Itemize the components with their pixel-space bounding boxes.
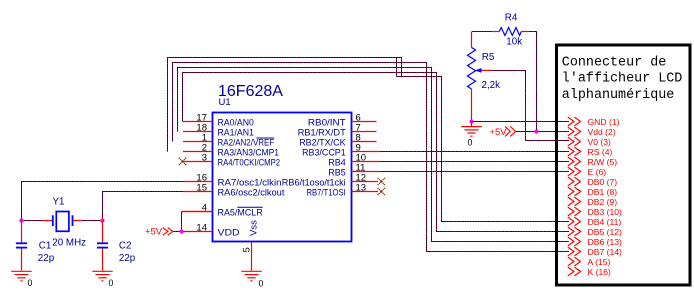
chip right pin stubs <box>352 122 381 192</box>
svg-text:20 MHz: 20 MHz <box>52 237 86 248</box>
potentiometer R5 <box>468 32 493 122</box>
label 5 <box>242 247 253 252</box>
svg-text:R4: R4 <box>505 12 518 23</box>
junction R5 bottom <box>469 119 473 123</box>
ground below chip <box>241 271 261 281</box>
svg-text:10k: 10k <box>506 37 522 48</box>
label 0 gnd R5 <box>468 138 473 148</box>
wire RA0 pin17 to DB5 <box>183 73 570 232</box>
power +5V left <box>145 226 173 237</box>
svg-text:5: 5 <box>242 247 253 252</box>
wire pin16 to crystal left <box>22 182 184 221</box>
label 0 gnd C1 <box>28 278 33 288</box>
no-connect X pin 3 <box>179 158 186 165</box>
wire R4 left to R5 top <box>472 31 492 33</box>
wire +5V left to pin14 <box>174 231 182 233</box>
svg-text:0: 0 <box>468 138 473 148</box>
label C1 22p <box>38 253 55 264</box>
svg-text:DB3 (10): DB3 (10) <box>588 207 623 217</box>
label 2,2k <box>482 80 501 91</box>
ground below R5 <box>461 122 481 137</box>
capacitor C2 <box>97 221 108 271</box>
label 10k <box>506 37 522 48</box>
wire +5V to Vdd connector <box>516 131 569 133</box>
svg-text:l'afficheur LCD: l'afficheur LCD <box>562 72 683 87</box>
svg-text:0: 0 <box>28 278 33 288</box>
power +5V right <box>490 126 516 137</box>
svg-text:RS (4): RS (4) <box>588 147 613 157</box>
label 20 MHz <box>52 237 86 248</box>
svg-text:Vdd (2): Vdd (2) <box>588 127 616 137</box>
svg-text:DB2 (9): DB2 (9) <box>588 197 618 207</box>
label C2 22p <box>119 253 136 264</box>
svg-text:U1: U1 <box>219 97 231 108</box>
label U1 <box>219 97 231 108</box>
svg-text:R5: R5 <box>482 52 495 63</box>
svg-text:A (15): A (15) <box>588 257 611 267</box>
svg-text:K (16): K (16) <box>588 267 612 277</box>
junction crystal left <box>19 218 23 222</box>
svg-text:RA4/T0CKI/CMP2: RA4/T0CKI/CMP2 <box>218 158 281 169</box>
svg-text:Vss: Vss <box>249 220 260 236</box>
chip left pin stubs <box>182 122 213 232</box>
label C2 <box>119 241 132 252</box>
capacitor C1 <box>16 221 27 271</box>
svg-text:Connecteur de: Connecteur de <box>562 56 666 71</box>
svg-text:V0 (3): V0 (3) <box>588 137 612 147</box>
label 0 gnd chip <box>259 278 264 288</box>
svg-text:alphanumérique: alphanumérique <box>562 88 675 103</box>
svg-text:DB1 (8): DB1 (8) <box>588 187 618 197</box>
wire pin4 loop <box>181 212 183 232</box>
pin names and numbers right <box>282 112 366 198</box>
connector box <box>557 45 691 285</box>
svg-text:DB7 (14): DB7 (14) <box>588 247 623 257</box>
svg-text:DB0 (7): DB0 (7) <box>588 177 618 187</box>
svg-text:+5V: +5V <box>490 126 508 137</box>
svg-text:R/W (5): R/W (5) <box>588 157 618 167</box>
overline MCLR <box>237 206 262 208</box>
ground below C1 <box>11 271 31 281</box>
label R4 <box>505 12 518 23</box>
svg-text:DB4 (11): DB4 (11) <box>588 217 622 227</box>
label C1 <box>39 241 52 252</box>
svg-text:C1: C1 <box>39 241 52 252</box>
svg-text:RB7/T1OSI: RB7/T1OSI <box>307 188 346 199</box>
label R5 <box>482 52 495 63</box>
label Y1 <box>53 197 65 208</box>
wire R5 wiper to V0 <box>492 71 569 141</box>
svg-text:VDD: VDD <box>218 228 240 239</box>
svg-text:RA6/osc2/clkout: RA6/osc2/clkout <box>218 188 285 199</box>
label 0 gnd C2 <box>109 278 114 288</box>
svg-text:Y1: Y1 <box>53 197 65 208</box>
no-connect X pin 12 <box>378 178 385 185</box>
wire R4 right down to Vdd <box>529 32 536 132</box>
connector title <box>562 56 683 103</box>
junction pin14 +5V <box>179 229 183 233</box>
wire RA2 pin1 to DB7 <box>173 63 570 252</box>
pin4 stub red <box>182 211 213 213</box>
svg-text:E (6): E (6) <box>588 167 607 177</box>
pin names and numbers left <box>196 112 284 238</box>
label Vss pin5 <box>249 220 260 236</box>
ground below C2 <box>92 271 112 281</box>
wire RB5 to E <box>381 171 570 173</box>
wire GND to connector <box>472 121 570 123</box>
svg-text:DB5 (12): DB5 (12) <box>588 227 623 237</box>
svg-text:RA5/MCLR: RA5/MCLR <box>218 208 263 219</box>
svg-text:0: 0 <box>109 278 114 288</box>
wire RB4 to R/W <box>381 161 570 163</box>
no-connect X pin 13 <box>378 188 385 195</box>
svg-text:DB6 (13): DB6 (13) <box>588 237 623 247</box>
svg-text:2,2k: 2,2k <box>482 80 501 91</box>
svg-text:GND (1): GND (1) <box>588 117 620 127</box>
svg-text:+5V: +5V <box>145 226 163 237</box>
wire RA3 pin2 to DB4 <box>168 58 570 222</box>
label 16F628A <box>218 83 283 100</box>
svg-text:0: 0 <box>259 278 264 288</box>
wire RB3 to RS <box>381 151 570 153</box>
wire pin5 to ground <box>251 242 253 271</box>
crystal Y1 <box>43 212 83 232</box>
svg-text:C2: C2 <box>119 241 132 252</box>
wire RA1 pin18 to DB6 <box>178 68 570 242</box>
wire pin15 to crystal right <box>82 192 183 221</box>
op-amp U1 PIC 16F628A body <box>213 113 352 242</box>
resistor R4 <box>492 28 530 36</box>
junction crystal right <box>100 218 104 222</box>
connector pins chevrons and labels <box>568 117 622 277</box>
svg-text:22p: 22p <box>119 253 136 264</box>
junction Vdd R4 <box>534 129 538 133</box>
overline VREF <box>257 137 275 139</box>
svg-text:22p: 22p <box>38 253 55 264</box>
